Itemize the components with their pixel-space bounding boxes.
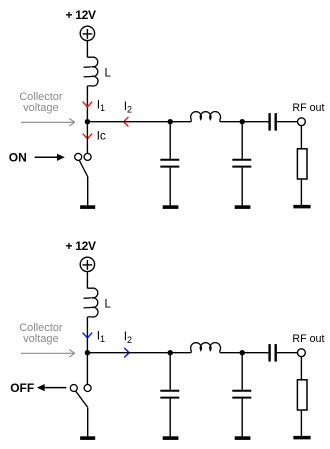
+12V supply terminal (top) xyxy=(80,26,94,40)
wire supply to inductor L (bottom) xyxy=(86,272,88,289)
capacitor C2 wire (top) xyxy=(241,122,243,159)
switch S1 closed (top) xyxy=(75,153,91,176)
resistor R load (bottom) xyxy=(297,380,307,410)
wire C3 to RF out (top) xyxy=(277,121,298,123)
capacitor C1 wire (top) xyxy=(169,122,171,159)
wire switch to ground (top) xyxy=(87,176,89,205)
wire L2 to node B (bottom) xyxy=(220,352,269,354)
node A (bottom) xyxy=(168,350,173,355)
coupling capacitor C3 (top) xyxy=(270,113,276,131)
capacitor C2 wire (bottom) xyxy=(241,353,243,390)
capacitor C2 (top) xyxy=(232,160,251,167)
wire inductor to node (top) xyxy=(86,86,88,122)
svg-text:+ 12V: + 12V xyxy=(66,8,96,22)
wire C3 to RF out (bottom) xyxy=(277,352,298,354)
RF out terminal (bottom) xyxy=(298,349,306,357)
ground load (top) xyxy=(293,205,310,209)
wire bus node to filter (bottom) xyxy=(87,352,191,354)
wire switch to ground (bottom) xyxy=(87,407,89,436)
label Collector voltage (bottom) xyxy=(19,322,63,345)
capacitor C1 lower wire (top) xyxy=(169,168,171,206)
wire load to ground (bottom) xyxy=(300,410,302,436)
collector voltage arrow gray (top) xyxy=(21,119,75,127)
wire bus node to filter (top) xyxy=(87,121,191,123)
node collector (top) xyxy=(85,119,90,124)
ground switch (bottom) xyxy=(80,436,95,440)
capacitor C1 wire (bottom) xyxy=(169,353,171,390)
ground C2 (bottom) xyxy=(235,436,251,440)
current arrow I1 red (top) xyxy=(83,102,93,107)
wire load to ground (top) xyxy=(300,179,302,205)
coupling capacitor C3 (bottom) xyxy=(270,344,276,362)
wire inductor to node (bottom) xyxy=(86,317,88,353)
capacitor C2 lower wire (bottom) xyxy=(241,399,243,437)
RF out terminal (top) xyxy=(298,118,306,126)
svg-text:L: L xyxy=(105,298,112,310)
node collector (bottom) xyxy=(85,350,90,355)
+12V supply terminal (bottom) xyxy=(80,257,94,271)
svg-text:L: L xyxy=(105,67,112,79)
ON arrow xyxy=(35,154,65,161)
inductor L (top) xyxy=(84,57,98,86)
node B (bottom) xyxy=(240,350,245,355)
capacitor C2 lower wire (top) xyxy=(241,168,243,206)
svg-text:OFF: OFF xyxy=(10,381,34,395)
ground C1 (top) xyxy=(163,205,179,209)
svg-text:RF out: RF out xyxy=(292,333,324,345)
switch S1 open (bottom) xyxy=(70,385,91,408)
svg-text:+ 12V: + 12V xyxy=(66,239,96,253)
current arrow I2 blue (bottom) xyxy=(124,348,129,358)
ground C1 (bottom) xyxy=(163,436,179,440)
svg-text:voltage: voltage xyxy=(23,102,58,114)
resistor R load (top) xyxy=(297,149,307,179)
wire RF out to load (bottom) xyxy=(300,357,302,380)
OFF arrow xyxy=(37,384,67,391)
label Collector voltage (top) xyxy=(19,91,63,114)
series inductor L2 (top) xyxy=(191,112,221,122)
wire supply to inductor L (top) xyxy=(86,41,88,58)
capacitor C1 (bottom) xyxy=(160,391,179,398)
series inductor L2 (bottom) xyxy=(191,343,221,353)
current arrow I1 blue (bottom) xyxy=(83,333,93,338)
current arrow Ic red (top) xyxy=(83,134,93,139)
collector voltage arrow gray (bottom) xyxy=(21,350,75,358)
node B (top) xyxy=(240,119,245,124)
capacitor C1 (top) xyxy=(160,160,179,167)
node A (top) xyxy=(168,119,173,124)
svg-text:voltage: voltage xyxy=(23,333,58,345)
capacitor C1 lower wire (bottom) xyxy=(169,399,171,437)
wire node down to switch (top) xyxy=(86,122,88,154)
svg-text:Ic: Ic xyxy=(97,129,106,143)
wire RF out to load (top) xyxy=(300,126,302,149)
ground C2 (top) xyxy=(235,205,251,209)
capacitor C2 (bottom) xyxy=(232,391,251,398)
ground load (bottom) xyxy=(293,436,310,440)
ground switch (top) xyxy=(80,205,95,209)
wire L2 to node B (top) xyxy=(220,121,269,123)
current arrow I2 red (top) xyxy=(124,117,129,127)
svg-text:RF out: RF out xyxy=(292,102,324,114)
inductor L (bottom) xyxy=(84,288,98,317)
svg-text:ON: ON xyxy=(9,151,27,165)
wire node down to switch (bottom) xyxy=(86,353,88,385)
